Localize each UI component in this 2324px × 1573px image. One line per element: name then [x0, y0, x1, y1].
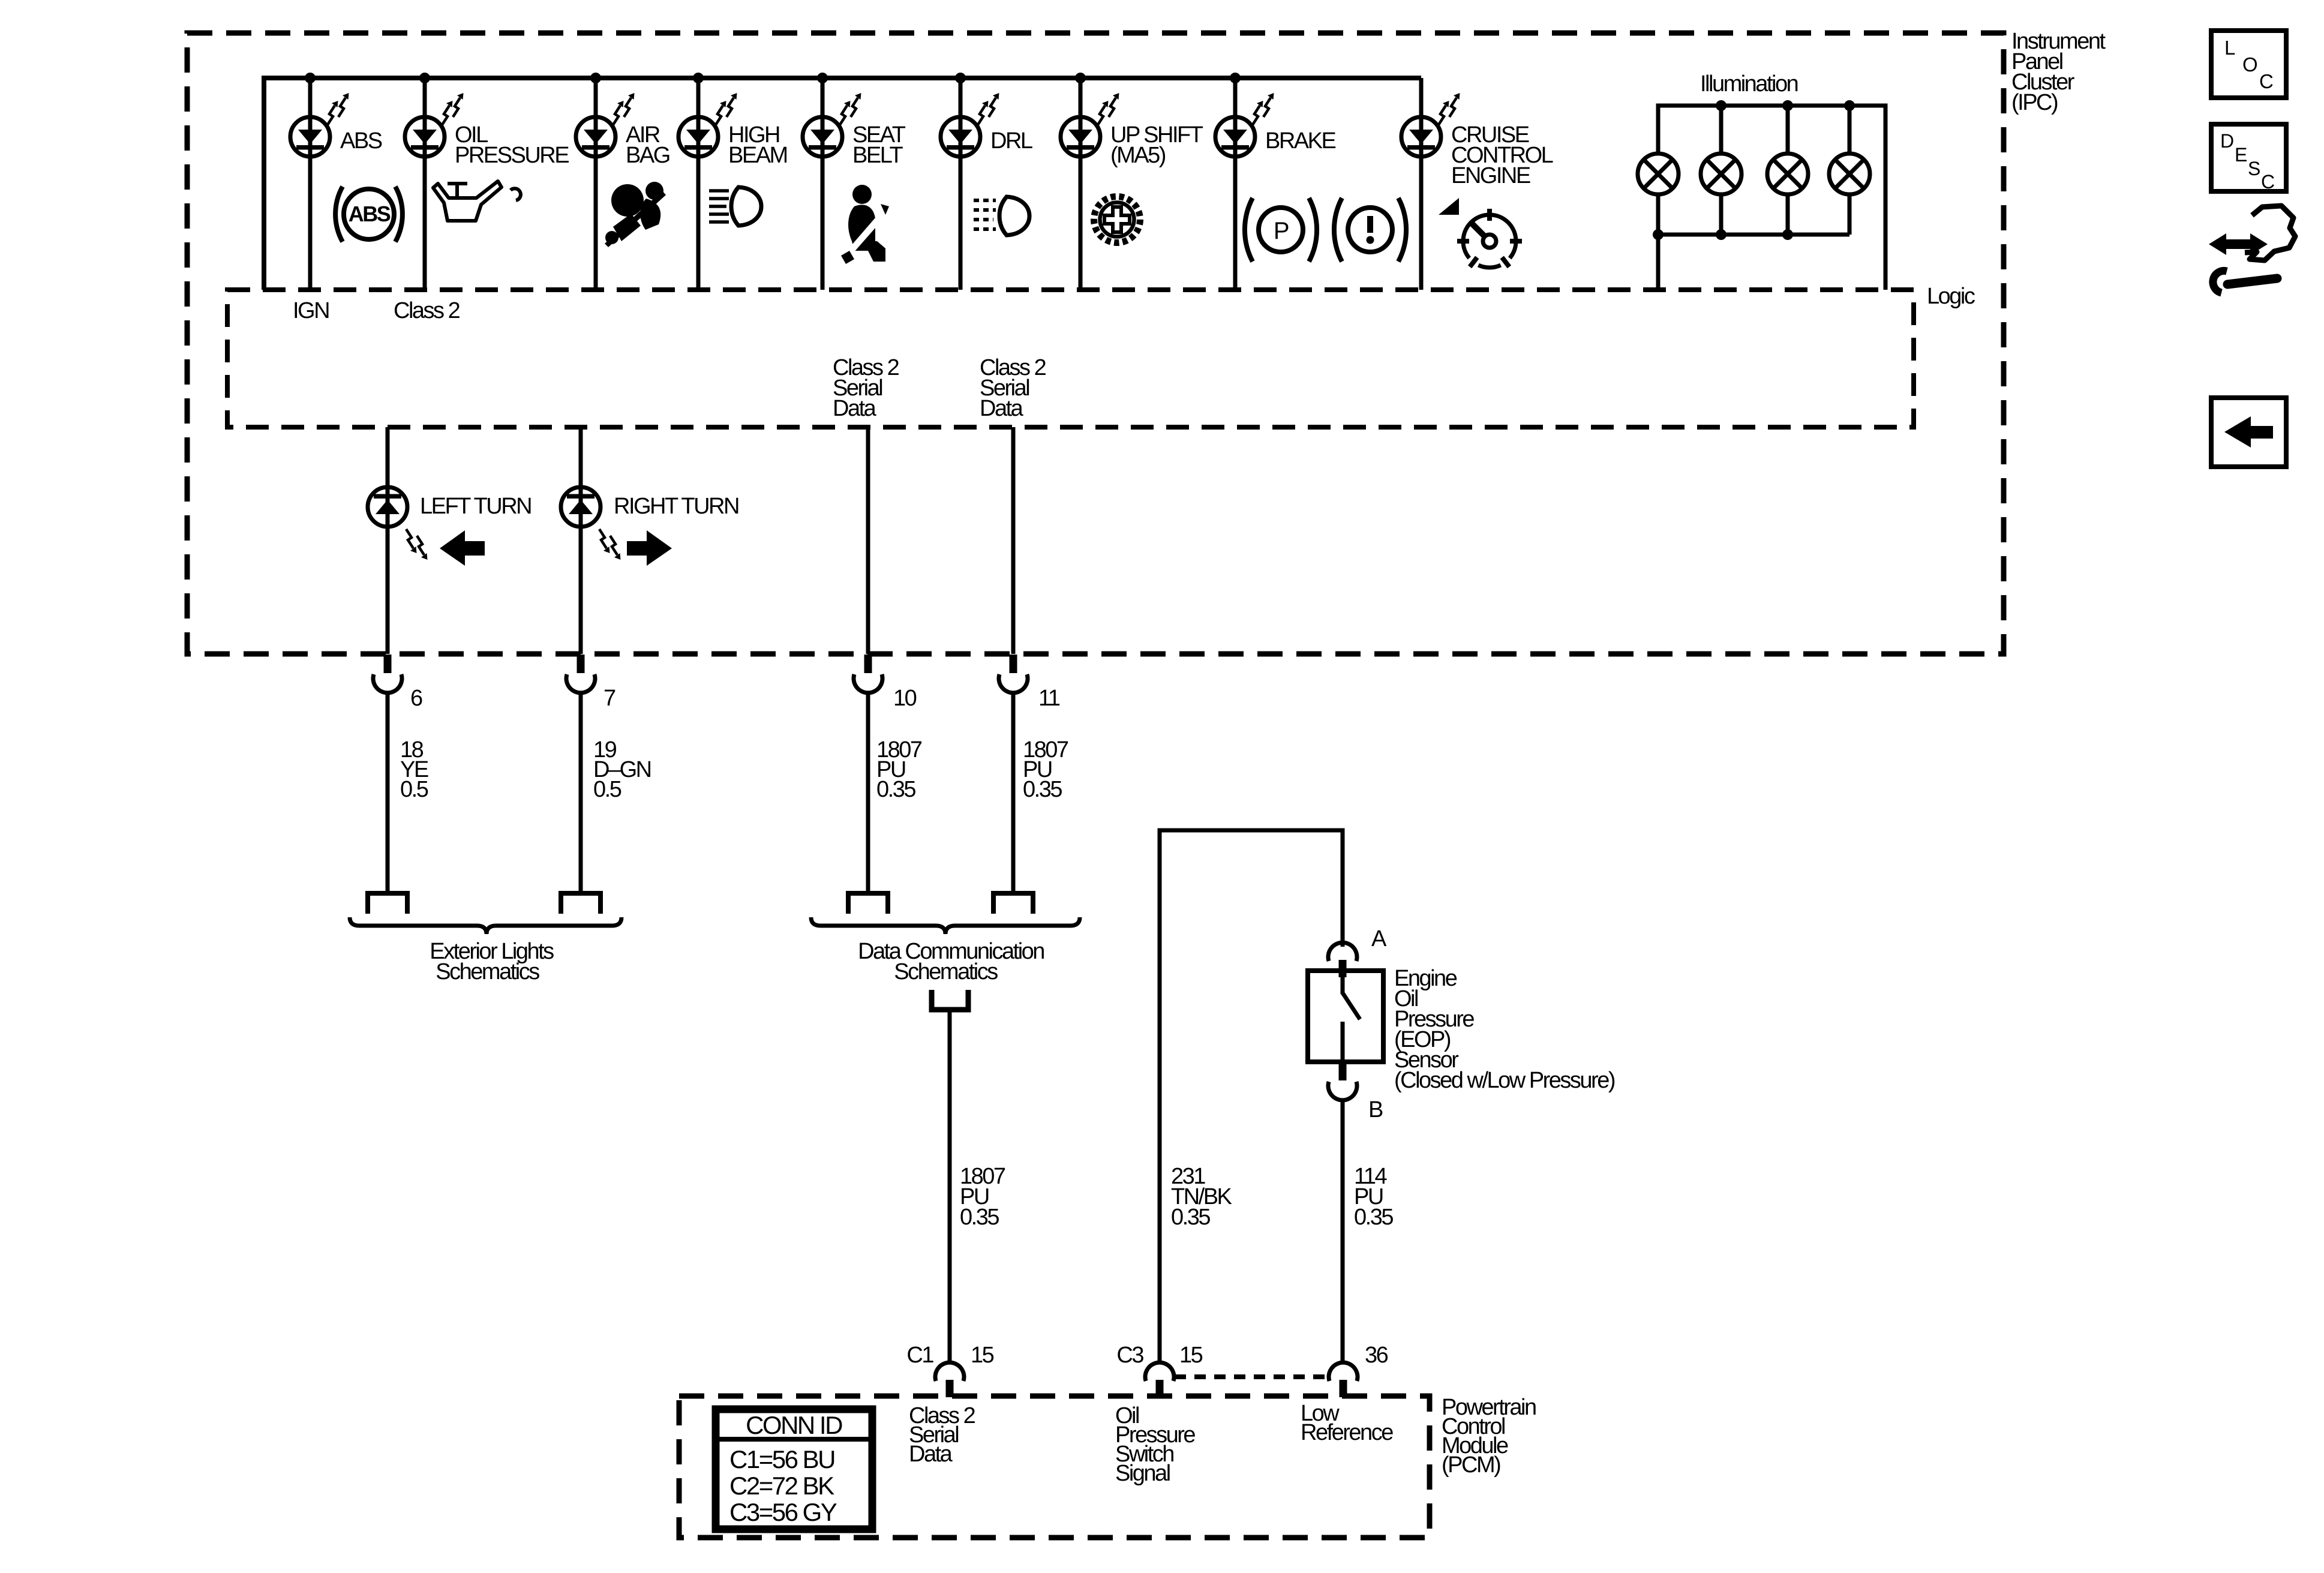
LED indicator lamp: AIR BAG [576, 117, 615, 157]
svg-text:C2=72 BK: C2=72 BK [729, 1472, 834, 1500]
junction dot: illumination top bus [1716, 100, 1727, 111]
LED indicator lamp: DRL [941, 117, 980, 157]
svg-text:RIGHT TURN: RIGHT TURN [614, 494, 738, 519]
wire label: 19 D–GN 0.5 [593, 737, 651, 802]
LED indicator lamp: RIGHT TURN [561, 487, 600, 527]
terminal: pin 10 wire end [848, 893, 888, 914]
LED emission arrows: AIR BAG [613, 101, 624, 125]
icon: seat belt occupant [841, 185, 889, 264]
icon: up shift gear with cross [1094, 197, 1140, 243]
wire: branch for HIGH BEAM lamp [696, 78, 701, 290]
junction dot: illumination bottom bus [1653, 229, 1664, 240]
junction dot: UP SHIFT (MA5) branch [1075, 73, 1086, 83]
svg-text:ENGINE: ENGINE [1451, 163, 1530, 188]
LED indicator lamp: ABS [290, 117, 330, 157]
lamp bulb: illumination 1 [1638, 154, 1679, 194]
LED emission arrows: ABS [328, 101, 338, 125]
wire: 114 PU low reference [1341, 1100, 1345, 1362]
svg-text:0.35: 0.35 [876, 777, 915, 802]
wire: IGN supply bus (top horizontal) [264, 78, 1421, 290]
svg-text:P: P [1274, 218, 1289, 244]
junction dot: illumination top bus [1844, 100, 1855, 111]
LED indicator lamp: SEAT BELT [803, 117, 842, 157]
svg-text:0.35: 0.35 [1354, 1205, 1393, 1230]
wire label: 1807 PU 0.35 [1023, 737, 1068, 802]
off-page reference bracket (to PCM C1) [932, 990, 968, 1010]
reference box: DESC [2211, 124, 2286, 193]
LED indicator lamp: CRUISE CONTROL ENGINE [1401, 117, 1441, 157]
svg-text:BELT: BELT [852, 143, 903, 168]
wire: bulb 3 drop [1786, 106, 1790, 154]
wire: harness lead pin 6 [386, 693, 390, 893]
lamp bulb: illumination 4 [1829, 154, 1870, 194]
wire: branch for DRL lamp [959, 78, 963, 290]
svg-text:A: A [1371, 926, 1387, 951]
terminal: pin 6 wire end [368, 893, 407, 914]
label: OIL PRESSURE [455, 122, 569, 168]
svg-text:0.35: 0.35 [1023, 777, 1062, 802]
svg-text:IGN: IGN [293, 298, 329, 323]
LED emission arrows: SEAT BELT [840, 101, 851, 125]
wire: illumination bottom bus [1658, 194, 1849, 290]
svg-text:Data: Data [980, 396, 1024, 421]
CONN ID table [716, 1409, 872, 1529]
icon: park brake (P) [1245, 198, 1317, 262]
junction dot: illumination bottom bus [1782, 229, 1793, 240]
label: AIR BAG [626, 122, 669, 168]
Powertrain Control Module (PCM) dashed box [679, 1396, 1430, 1538]
label: Powertrain Control Module (PCM) [1442, 1395, 1536, 1478]
svg-text:O: O [2242, 53, 2257, 76]
icon: cruise control gauge [1439, 198, 1522, 268]
svg-text:Reference: Reference [1301, 1420, 1393, 1445]
wire label: 1807 PU 0.35 [876, 737, 922, 802]
icon: oil can (oil pressure) [433, 181, 521, 221]
label: Class 2 Serial Data [833, 355, 899, 421]
icon: brake warning (!) [1334, 198, 1406, 262]
svg-text:CONN ID: CONN ID [746, 1411, 842, 1439]
svg-text:C3: C3 [1116, 1343, 1143, 1368]
junction dot: illumination bottom bus [1716, 229, 1727, 240]
svg-text:L: L [2224, 37, 2235, 59]
icon: DRL daytime running lamp [974, 197, 1029, 235]
connector: PCM pin 36 [1329, 1362, 1358, 1397]
wire: branch for BRAKE lamp [1233, 78, 1238, 290]
wire: bulb 2 drop [1719, 106, 1724, 154]
label: UP SHIFT (MA5) [1110, 122, 1203, 168]
wire label: 1807 PU 0.35 [960, 1164, 1005, 1230]
LED indicator lamp: UP SHIFT (MA5) [1061, 117, 1100, 157]
svg-text:0.5: 0.5 [400, 777, 428, 802]
brace: data communication group [811, 917, 1080, 934]
svg-text:(Closed w/Low Pressure): (Closed w/Low Pressure) [1394, 1068, 1615, 1093]
LED emission arrows: LEFT TURN [406, 529, 417, 553]
icon: right turn arrow [627, 530, 672, 566]
EOP pressure switch [1308, 971, 1383, 1062]
label: SEAT BELT [852, 122, 906, 168]
LED indicator lamp: BRAKE [1215, 117, 1255, 157]
svg-text:(IPC): (IPC) [2011, 90, 2058, 115]
svg-text:10: 10 [893, 686, 917, 711]
svg-text:11: 11 [1038, 686, 1060, 711]
junction dot: ABS branch [305, 73, 316, 83]
svg-text:C: C [2261, 171, 2274, 193]
Instrument Panel Cluster (IPC) dashed box [187, 33, 2004, 654]
svg-text:C1: C1 [906, 1343, 933, 1368]
connector: EOP pin B [1328, 1062, 1357, 1100]
LED emission arrows: OIL PRESSURE [442, 101, 453, 125]
wire: bulb 4 drop [1848, 106, 1852, 154]
svg-text:0.35: 0.35 [960, 1205, 999, 1230]
reference box: back arrow [2211, 398, 2286, 467]
svg-text:C3=56 GY: C3=56 GY [729, 1498, 837, 1526]
label: HIGH BEAM [728, 122, 787, 168]
svg-text:E: E [2235, 144, 2247, 166]
wire: harness lead pin 7 [579, 693, 583, 893]
svg-text:Data: Data [833, 396, 877, 421]
wire: illumination top bus [1658, 106, 1885, 290]
icon: diagnostic arrows with wrench [2209, 206, 2295, 293]
svg-text:Schematics: Schematics [436, 959, 539, 984]
connector: PCM pin 15 [1145, 1362, 1174, 1397]
junction dot: illumination top bus [1782, 100, 1793, 111]
lamp bulb: illumination 2 [1701, 154, 1742, 194]
label: Data Communication Schematics [858, 939, 1044, 984]
svg-text:Schematics: Schematics [894, 959, 998, 984]
connector: PCM pin 15 [935, 1362, 964, 1397]
junction dot: DRL branch [955, 73, 966, 83]
lamp bulb: illumination 3 [1767, 154, 1808, 194]
label: Instrument Panel Cluster (IPC) [2011, 29, 2106, 115]
wire: harness lead pin 11 [1011, 693, 1016, 893]
LED emission arrows: BRAKE [1253, 101, 1263, 125]
svg-text:PRESSURE: PRESSURE [455, 143, 569, 168]
connector: IPC pin 7 [566, 655, 595, 693]
wire: branch for CRUISE CONTROL ENGINE lamp [1419, 78, 1424, 290]
svg-text:BEAM: BEAM [728, 143, 787, 168]
LED emission arrows: HIGH BEAM [716, 101, 726, 125]
label: ABS [340, 128, 382, 154]
label: Exterior Lights Schematics [430, 939, 554, 984]
svg-text:LEFT TURN: LEFT TURN [420, 494, 531, 519]
svg-text:ABS: ABS [349, 202, 391, 226]
label: Engine Oil Pressure (EOP) Sensor [1394, 966, 1615, 1093]
svg-text:C: C [2259, 70, 2273, 92]
svg-text:7: 7 [603, 686, 615, 711]
dashed internal link C3-15 to 36 [1175, 1374, 1329, 1379]
LED emission arrows: CRUISE CONTROL ENGINE [1439, 101, 1449, 125]
LED emission arrows: RIGHT TURN [599, 529, 610, 553]
svg-text:0.35: 0.35 [1171, 1205, 1210, 1230]
junction dot: SEAT BELT branch [817, 73, 828, 83]
wire: LEFT TURN lamp feed [386, 427, 390, 654]
wire label: 231 TN/BK 0.35 [1171, 1164, 1232, 1230]
wire: branch for AIR BAG lamp [594, 78, 598, 290]
wire: branch for SEAT BELT lamp [821, 78, 825, 290]
wire label: 114 PU 0.35 [1354, 1164, 1393, 1230]
reference box: LOC [2211, 31, 2286, 98]
terminal: pin 7 wire end [561, 893, 600, 914]
svg-text:B: B [1368, 1097, 1383, 1122]
icon: ABS warning symbol [335, 187, 403, 242]
label: Class 2 Serial Data (PCM) [909, 1403, 975, 1467]
svg-text:Data: Data [909, 1442, 953, 1467]
svg-text:DRL: DRL [990, 128, 1032, 154]
label: BRAKE [1265, 128, 1335, 154]
svg-text:Signal: Signal [1115, 1461, 1170, 1486]
wire: harness lead pin 10 [866, 693, 870, 893]
terminal: pin 11 wire end [993, 893, 1033, 914]
LED emission arrows: UP SHIFT (MA5) [1098, 101, 1109, 125]
LED indicator lamp: HIGH BEAM [678, 117, 718, 157]
svg-text:0.5: 0.5 [593, 777, 621, 802]
Logic dashed box [227, 290, 1914, 427]
junction dot: AIR BAG branch [590, 73, 601, 83]
connector: EOP pin A [1328, 942, 1357, 977]
svg-text:6: 6 [410, 686, 422, 711]
svg-text:D: D [2220, 130, 2233, 152]
svg-text:(PCM): (PCM) [1442, 1452, 1500, 1478]
LED indicator lamp: LEFT TURN [368, 487, 407, 527]
svg-text:BAG: BAG [626, 143, 669, 168]
svg-text:Illumination: Illumination [1700, 71, 1798, 97]
wire: 231 TN/BK oil pressure switch signal [1160, 830, 1343, 1362]
svg-text:15: 15 [971, 1343, 994, 1368]
connector: IPC pin 10 [854, 655, 882, 693]
LED indicator lamp: OIL PRESSURE [405, 117, 445, 157]
connector: IPC pin 11 [999, 655, 1028, 693]
label: Class 2 Serial Data [980, 355, 1046, 421]
wire: class 2 serial data (pin 10) [866, 427, 870, 654]
label: Oil Pressure Switch Signal [1115, 1403, 1195, 1486]
icon: air bag with occupant [605, 182, 666, 247]
svg-text:15: 15 [1179, 1343, 1203, 1368]
wire: branch for ABS lamp [308, 78, 313, 290]
svg-text:C1=56 BU: C1=56 BU [729, 1445, 834, 1473]
svg-text:Class 2: Class 2 [394, 298, 460, 323]
wire: class 2 serial data (pin 11) [1011, 427, 1016, 654]
icon: high beam headlamp [709, 187, 761, 226]
wire label: 18 YE 0.5 [400, 737, 428, 802]
svg-text:Logic: Logic [1927, 284, 1975, 309]
wire: branch for OIL PRESSURE lamp [423, 78, 427, 290]
svg-text:36: 36 [1365, 1343, 1388, 1368]
label: DRL [990, 128, 1032, 154]
svg-text:BRAKE: BRAKE [1265, 128, 1335, 154]
label: Low Reference [1301, 1401, 1393, 1445]
junction dot: BRAKE branch [1230, 73, 1241, 83]
wire: RIGHT TURN lamp feed [579, 427, 583, 654]
wire: branch for UP SHIFT (MA5) lamp [1079, 78, 1083, 290]
svg-text:ABS: ABS [340, 128, 382, 154]
brace: exterior lights group [350, 917, 621, 934]
svg-text:(MA5): (MA5) [1110, 143, 1166, 168]
junction dot: HIGH BEAM branch [693, 73, 704, 83]
wire: 1807 PU to PCM C1 pin 15 [948, 1010, 952, 1362]
label: CRUISE CONTROL ENGINE [1451, 122, 1553, 188]
connector: IPC pin 6 [373, 655, 402, 693]
LED emission arrows: DRL [978, 101, 989, 125]
icon: left turn arrow [440, 530, 485, 566]
svg-text:S: S [2248, 158, 2260, 179]
junction dot: OIL PRESSURE branch [419, 73, 430, 83]
